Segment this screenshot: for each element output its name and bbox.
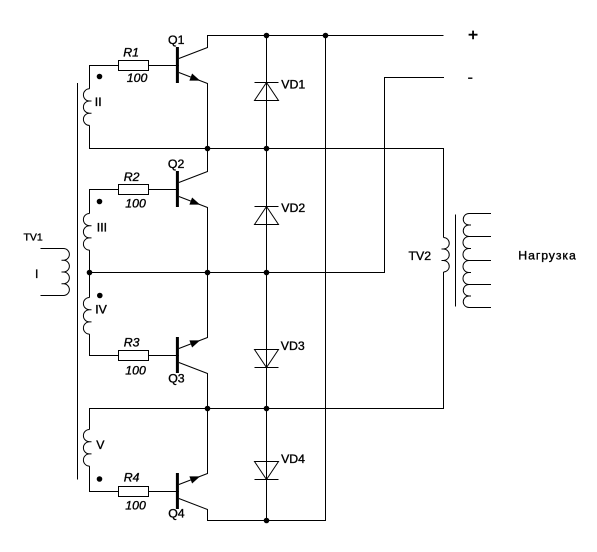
svg-text:V: V bbox=[96, 438, 105, 452]
svg-text:R4: R4 bbox=[124, 471, 140, 485]
svg-text:VD3: VD3 bbox=[281, 339, 305, 353]
svg-text:TV2: TV2 bbox=[409, 249, 432, 263]
svg-text:VD2: VD2 bbox=[281, 201, 305, 215]
svg-text:100: 100 bbox=[125, 499, 146, 513]
svg-text:Q3: Q3 bbox=[168, 371, 185, 385]
svg-text:II: II bbox=[95, 95, 102, 109]
svg-text:III: III bbox=[97, 221, 107, 235]
svg-text:VD4: VD4 bbox=[281, 452, 305, 466]
svg-text:Q1: Q1 bbox=[168, 33, 185, 47]
svg-text:Q4: Q4 bbox=[168, 507, 185, 521]
svg-text:100: 100 bbox=[127, 71, 148, 85]
svg-text:I: I bbox=[35, 267, 38, 281]
svg-text:100: 100 bbox=[125, 196, 146, 210]
svg-text:Q2: Q2 bbox=[168, 157, 185, 171]
svg-text:IV: IV bbox=[95, 302, 107, 316]
svg-text:R1: R1 bbox=[123, 45, 139, 59]
svg-text:100: 100 bbox=[125, 363, 146, 377]
svg-text:R2: R2 bbox=[124, 170, 140, 184]
svg-text:R3: R3 bbox=[124, 336, 140, 350]
svg-text:Нагрузка: Нагрузка bbox=[518, 249, 576, 263]
svg-text:TV1: TV1 bbox=[24, 231, 43, 243]
svg-text:VD1: VD1 bbox=[281, 77, 305, 91]
